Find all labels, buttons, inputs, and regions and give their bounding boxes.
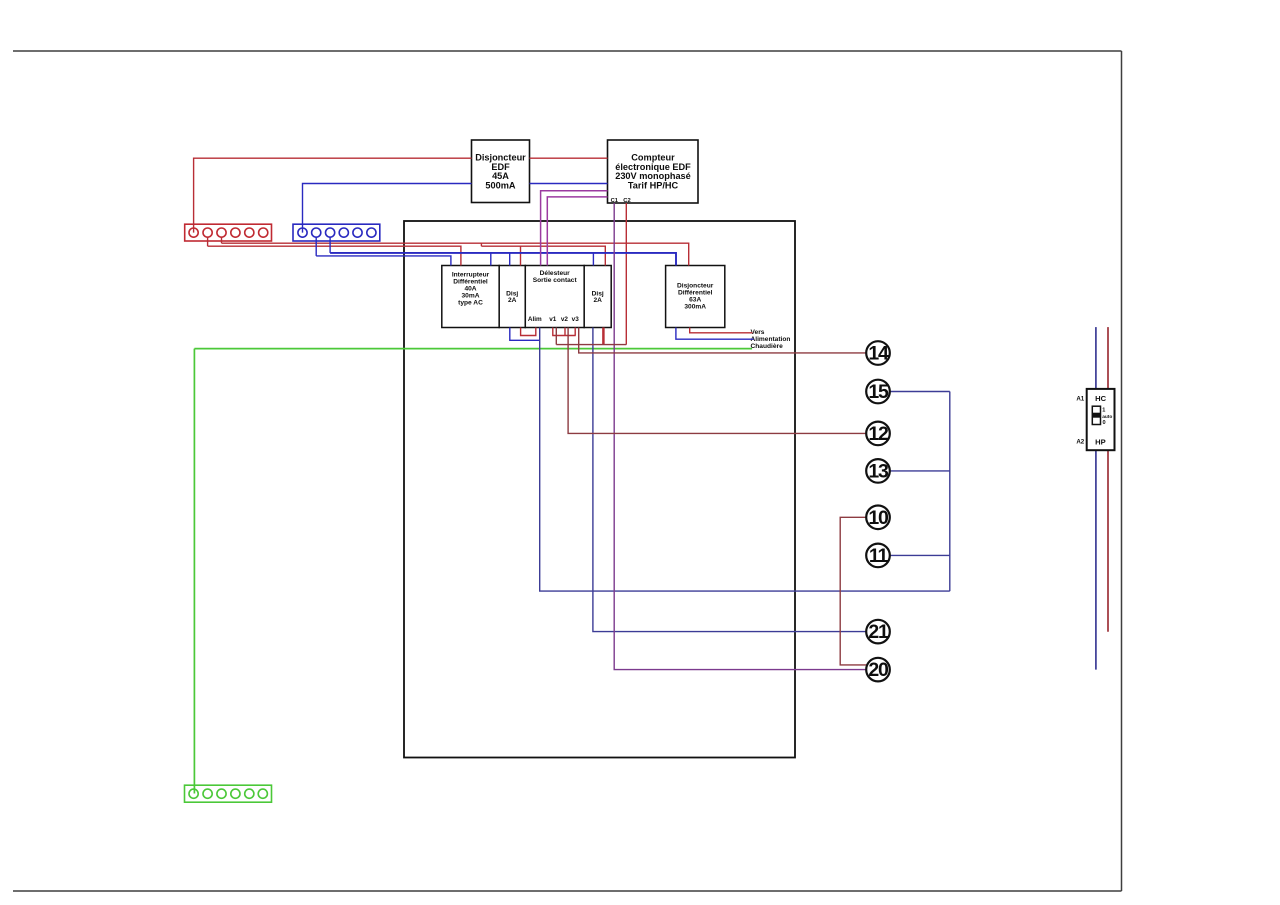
svg-text:2A: 2A	[508, 297, 517, 304]
wire rail to contacts	[949, 392, 951, 592]
svg-text:C1: C1	[611, 198, 619, 204]
wire neutral row 1	[330, 253, 676, 266]
svg-text:auto: auto	[1102, 414, 1112, 420]
node 11	[866, 544, 890, 568]
node 20	[866, 658, 890, 682]
sheet border bottom	[13, 890, 1122, 892]
svg-text:type AC: type AC	[458, 299, 483, 306]
svg-text:v1: v1	[549, 316, 557, 323]
wire neutral row 2 to RCD	[316, 256, 451, 266]
wire EDF breaker to meter (phase)	[530, 157, 608, 159]
wire phase row 2 riser	[480, 243, 482, 246]
wire earth horizontal	[194, 348, 752, 350]
node 21	[866, 620, 890, 644]
svg-text:2A: 2A	[593, 297, 602, 304]
wire HC feed blue lower	[1095, 450, 1097, 669]
svg-text:1: 1	[1102, 407, 1105, 413]
label "Vers Alimentation Chaudiere"	[751, 329, 791, 350]
svg-text:21: 21	[868, 621, 889, 643]
wire neutral block to EDF breaker	[303, 184, 472, 233]
svg-text:Tarif HP/HC: Tarif HP/HC	[628, 180, 679, 190]
wire phase row 1 to RCBO	[222, 243, 689, 265]
wire v1-v2-v3 bus	[552, 335, 576, 337]
wire riser v1 bus to C2 bus	[555, 328, 557, 345]
svg-text:11: 11	[869, 545, 889, 567]
node 12	[866, 422, 890, 446]
svg-text:v3: v3	[572, 316, 580, 323]
wire neutral drop to RCD	[490, 253, 492, 266]
svg-text:v2: v2	[561, 316, 569, 323]
node 13	[866, 459, 890, 483]
contactor mode switch	[1092, 406, 1112, 426]
svg-text:300mA: 300mA	[684, 303, 706, 310]
wire phase row 2 to RCD	[208, 246, 461, 265]
wire earth vertical	[193, 349, 195, 794]
load shedder "Delesteur Sortie contact"	[525, 266, 584, 328]
wire v2 stub	[564, 328, 566, 336]
terminal block earth (green)	[185, 785, 272, 802]
wire v2 to node 12	[568, 328, 866, 434]
svg-text:10: 10	[868, 507, 889, 529]
RCBO "Disjoncteur Differentiel 63A 300mA"	[666, 266, 725, 328]
wire node 10 to node 20	[840, 517, 867, 665]
wire Disj2A left to Alim loop	[521, 328, 536, 336]
wire phase drop to Disj2A left	[520, 246, 522, 265]
wire phase block pin2 drop	[207, 237, 209, 247]
wire neutral block pin2 drop	[315, 237, 317, 256]
wire HP feed red lower	[1107, 450, 1109, 632]
breaker "Disj 2A" left	[499, 266, 525, 328]
wire meter C1 to node 20	[614, 203, 866, 670]
wire phase block pin3 drop	[221, 237, 223, 244]
svg-text:14: 14	[868, 343, 889, 365]
svg-text:HP: HP	[1095, 437, 1106, 446]
svg-text:15: 15	[868, 381, 889, 403]
svg-text:13: 13	[868, 461, 889, 483]
svg-text:A2: A2	[1076, 438, 1084, 445]
wire meter C2 drop	[625, 203, 627, 345]
wire v3 to node 14	[579, 328, 867, 353]
contactor HC/HP (day/night relay)	[1087, 389, 1115, 450]
wire Disj2A right neutral to node 21	[593, 328, 866, 632]
wire v3 stub	[574, 328, 576, 336]
wire HC feed blue upper	[1095, 327, 1097, 389]
wire EDF breaker to meter (neutral)	[530, 183, 608, 185]
wire C2 bus	[556, 344, 626, 346]
wire stub node 15	[890, 391, 950, 393]
svg-text:Alim: Alim	[528, 316, 542, 323]
wire neutral drop to Disj2A left	[509, 253, 511, 266]
wire Disj2A right output (thick)	[602, 328, 605, 345]
node 15	[866, 380, 890, 404]
wire Alim feed down	[540, 328, 950, 592]
wire HP feed red upper	[1107, 327, 1109, 389]
node 14	[866, 341, 890, 365]
wire neutral drop to Disj2A right	[592, 253, 594, 266]
wire phase row 2b to Disj2A boxes	[481, 246, 605, 265]
node 10	[866, 506, 890, 530]
wire stub node 13	[890, 470, 950, 472]
svg-text:A1: A1	[1076, 395, 1084, 402]
wire RCD output to Alim neutral	[510, 328, 540, 341]
wire neutral block pin3 drop	[329, 237, 331, 253]
meter "Compteur electronique EDF 230V monophase Tarif HP/HC"	[608, 140, 699, 203]
terminal block phase (red)	[185, 224, 272, 241]
svg-text:0: 0	[1103, 420, 1106, 426]
svg-text:Chaudière: Chaudière	[751, 343, 784, 350]
svg-text:20: 20	[868, 659, 889, 681]
terminal block neutral (blue)	[293, 224, 380, 241]
wire meter tariff signal 1 to load shedder	[541, 191, 608, 266]
wire v1 stub	[552, 328, 554, 336]
RCD "Interrupteur Differentiel 40A 30mA type AC"	[442, 266, 499, 328]
breaker "Disjoncteur EDF 45A 500mA"	[472, 140, 530, 203]
sheet border top	[13, 50, 1122, 52]
wire phase block to EDF breaker	[194, 158, 472, 232]
svg-text:500mA: 500mA	[485, 180, 515, 190]
svg-text:Sortie contact: Sortie contact	[533, 277, 578, 284]
sheet border right	[1121, 51, 1123, 891]
enclosure panel (tableau)	[404, 221, 795, 758]
wire RCBO output phase	[690, 328, 753, 333]
svg-text:12: 12	[868, 423, 889, 445]
wire stub node 11	[890, 554, 950, 556]
svg-text:HC: HC	[1095, 394, 1106, 403]
wire meter tariff signal 2 to load shedder	[547, 197, 607, 266]
wire RCBO output neutral	[676, 328, 754, 340]
svg-text:C2: C2	[623, 198, 630, 204]
breaker "Disj 2A" right	[584, 266, 611, 328]
